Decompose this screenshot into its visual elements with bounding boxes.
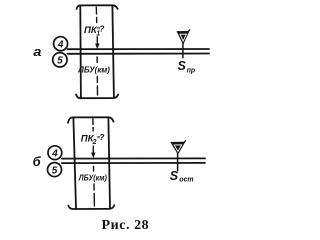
svg-text:а: а <box>33 44 41 59</box>
svg-text:S: S <box>170 169 179 183</box>
svg-text:б: б <box>33 154 42 169</box>
svg-text:ост: ост <box>179 176 193 183</box>
svg-text:?: ? <box>99 24 105 34</box>
svg-text:5: 5 <box>52 165 58 176</box>
svg-text:2: 2 <box>92 139 97 146</box>
svg-text:5: 5 <box>57 56 63 67</box>
svg-text:Рис. 28: Рис. 28 <box>102 218 150 233</box>
svg-text:?: ? <box>99 132 105 142</box>
svg-text:S: S <box>178 59 187 73</box>
svg-text:пр: пр <box>187 67 196 74</box>
svg-text:ЛБУ(км): ЛБУ(км) <box>77 66 110 75</box>
svg-text:4: 4 <box>51 148 58 159</box>
svg-text:4: 4 <box>57 39 64 50</box>
svg-text:ЛБУ(км): ЛБУ(км) <box>78 174 107 183</box>
